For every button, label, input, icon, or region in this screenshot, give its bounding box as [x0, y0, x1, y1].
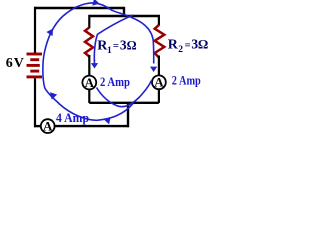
resistor R2 zigzag: [155, 25, 165, 58]
wire: outer bottom right segment (A3 to center stub): [55, 125, 129, 127]
battery B1: plate 5 long: [27, 75, 43, 78]
svg-text:2: 2: [178, 45, 183, 55]
svg-text:R: R: [168, 38, 179, 53]
current arrowhead: leftward on bottom return: [103, 116, 111, 125]
svg-text:A: A: [154, 75, 164, 90]
wire: branch 1 top stub: [88, 15, 90, 28]
svg-text:6V: 6V: [6, 56, 25, 71]
svg-text:=: =: [113, 41, 119, 52]
current arrow path: inner loop upper arc (branch1 up over to branch2): [94, 15, 133, 61]
current arrowhead: up-right near battery top: [46, 27, 56, 36]
battery B1: plate 3 long: [27, 64, 40, 67]
svg-text:=: =: [185, 40, 191, 51]
battery B1: plate 2 short: [30, 58, 39, 61]
current arrowhead: rightward at top apex: [92, 0, 100, 7]
resistor R1 zigzag: [85, 28, 93, 57]
svg-text:2 Amp: 2 Amp: [100, 75, 130, 89]
wire: outer left upper (top corner down to battery): [34, 7, 36, 54]
battery B1: plate 4 short: [30, 70, 39, 73]
svg-text:Ω: Ω: [198, 37, 208, 52]
wire: blue shaft into A1 arrow: [93, 60, 95, 64]
wire: outer bottom left segment to ammeter A3: [34, 125, 41, 127]
wire: branch 2 between R2 and A2: [158, 56, 160, 77]
svg-text:A: A: [43, 118, 53, 133]
current arrowhead: up-left toward battery bottom: [47, 90, 57, 100]
current arrow path: outer loop (bottom return, battery up over top, down into branch 2): [43, 3, 154, 120]
svg-text:Ω: Ω: [127, 38, 137, 52]
wire: branch 1 between R1 and A1: [88, 55, 90, 76]
current arrow path: inner loop lower arc (below A1 over to A2): [97, 81, 152, 107]
svg-text:A: A: [85, 75, 95, 90]
svg-text:1: 1: [107, 46, 112, 56]
label: R1 = 3 ohm: [97, 37, 136, 55]
svg-text:2 Amp: 2 Amp: [172, 74, 201, 88]
ammeter A2 circle: [152, 75, 166, 89]
ammeter A3 (4 Amp) circle: [41, 119, 55, 133]
current arrowhead: downward into ammeter A1: [91, 63, 98, 68]
svg-text:4 Amp: 4 Amp: [56, 111, 89, 125]
wire: inner top (branch 1 to branch 2): [89, 15, 159, 17]
ammeter A1 circle: [82, 76, 96, 90]
wire: bottom junction stub up to inner bottom wire: [127, 103, 129, 127]
wire: top junction stub down to inner top wire: [123, 7, 125, 16]
wire: outer left lower (battery bottom to bottom corner): [34, 78, 36, 127]
label: R2 = 3 ohm: [168, 37, 209, 55]
wire: branch 1 below A1: [88, 89, 90, 103]
current arrowhead: downward into ammeter A2: [150, 67, 157, 72]
battery B1 6V: plate 1 long: [27, 53, 43, 56]
wire: outer top (battery top to junction stub): [34, 7, 124, 9]
wire: inner bottom (branch 1 to branch 2): [89, 102, 159, 104]
wire: branch 2 top stub: [158, 15, 160, 26]
wire: branch 2 below A2: [158, 89, 160, 103]
